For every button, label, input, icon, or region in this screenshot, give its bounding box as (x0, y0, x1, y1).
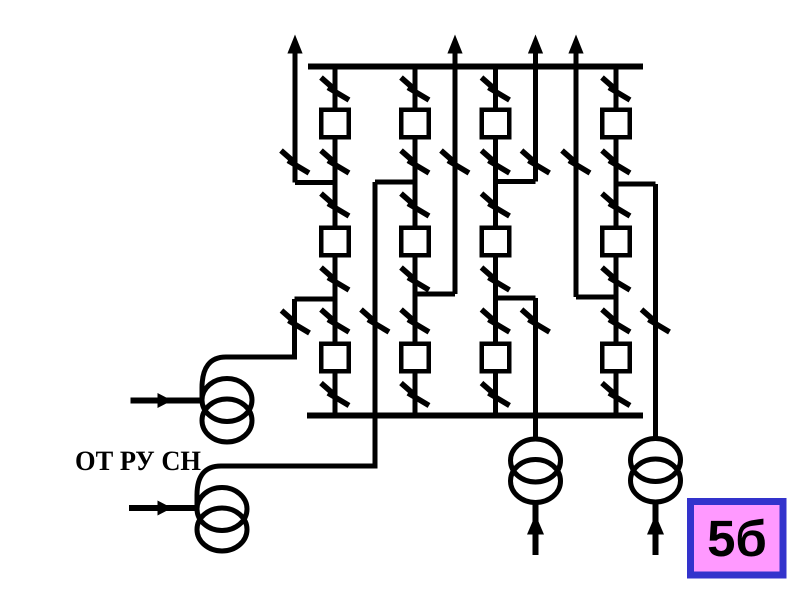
disconnector QS3-6 (482, 383, 510, 406)
svg-text:ОТ РУ СН: ОТ РУ СН (75, 446, 201, 477)
bay3 tap2 wire (496, 296, 536, 301)
T3 supply arrowhead (527, 515, 544, 535)
T1 supply arrowhead (158, 393, 173, 408)
breaker Q3-2 (482, 228, 510, 256)
T2 supply arrowhead (158, 501, 173, 516)
disconnector QS2-3 (401, 194, 429, 217)
breaker Q1-1 (321, 110, 349, 138)
bay2 tap1 wire (375, 180, 415, 185)
disconnector QS4-6 (602, 383, 630, 406)
bay 3 feeder line (493, 67, 498, 416)
disconnector on line A2 (441, 151, 469, 174)
T4 supply arrowhead (647, 515, 664, 535)
outgoing line A2 wire (453, 48, 458, 294)
transformer T4 drop wire (x=655.5) (653, 184, 658, 440)
bay1 tap2 wire (295, 297, 336, 302)
breaker Q1-3 (321, 344, 349, 372)
disconnector QS3-3 (482, 194, 510, 217)
disconnector QS4-3 (602, 194, 630, 217)
transformer T1 elbow wire (x=294.5) (202, 299, 295, 398)
disconnector QS3-5 (482, 310, 510, 333)
disconnector QS4-5 (602, 310, 630, 333)
svg-text:5б: 5б (707, 510, 767, 567)
breaker Q2-2 (401, 228, 429, 256)
breaker Q3-3 (482, 344, 510, 372)
T1 supply wire (131, 398, 204, 404)
disconnector QS2-2 (401, 151, 429, 174)
disconnector QS4-1 (602, 78, 630, 101)
disconnector QS1-3 (321, 194, 349, 217)
arrowhead A1 (287, 35, 302, 54)
T3 supply wire (533, 503, 539, 555)
top busbar (308, 64, 643, 70)
disconnector QS4-4 (602, 268, 630, 291)
bay 4 feeder line (614, 67, 619, 416)
transformer T3 (511, 439, 561, 482)
disconnector QS1-6 (321, 383, 349, 406)
breaker Q4-1 (602, 110, 630, 138)
disconnector QS2-4 (401, 268, 429, 291)
disconnector QS1-2 (321, 151, 349, 174)
disconnector QS1-5 (321, 310, 349, 333)
breaker Q3-1 (482, 110, 510, 138)
breaker Q1-2 (321, 228, 349, 256)
disconnector QS4-2 (602, 151, 630, 174)
disconnector QS3-1 (482, 78, 510, 101)
arrowhead A3 (528, 35, 543, 54)
disconnector QS3-4 (482, 268, 510, 291)
breaker Q2-3 (401, 344, 429, 372)
disconnector on line A4 (562, 151, 590, 174)
disconnector QS3-2 (482, 151, 510, 174)
transformer T4 (631, 439, 681, 482)
scheme badge box 5б (691, 502, 784, 576)
disconnector QS2-5 (401, 310, 429, 333)
transformer T1 (202, 379, 252, 422)
breaker Q4-3 (602, 344, 630, 372)
disconnector on T3 drop (522, 310, 550, 333)
outgoing line A4 wire (574, 48, 579, 297)
bay2 tap2 wire (415, 292, 455, 297)
breaker Q2-1 (401, 110, 429, 138)
T4 supply wire (653, 503, 659, 555)
arrowhead A4 (568, 35, 583, 54)
disconnector QS2-1 (401, 78, 429, 101)
disconnector on T4 drop (642, 310, 670, 333)
disconnector on line A3 (522, 151, 550, 174)
disconnector on T1 elbow (282, 311, 310, 334)
bay1 tap1 wire (295, 180, 335, 185)
outgoing line A3 wire (533, 48, 538, 182)
bay 1 feeder line (333, 67, 338, 416)
arrowhead A2 (447, 35, 462, 54)
disconnector QS1-4 (321, 268, 349, 291)
bay4 tap2 wire (576, 295, 616, 300)
breaker Q4-2 (602, 228, 630, 256)
bay 2 feeder line (413, 67, 418, 416)
outgoing line A1 wire (293, 48, 298, 183)
transformer T2 (197, 488, 247, 531)
transformer T3 drop wire (x=535.5) (533, 298, 538, 440)
disconnector QS1-1 (321, 78, 349, 101)
T2 supply wire (129, 505, 198, 511)
bay4 tap1 wire (616, 182, 656, 187)
disconnector on line A1 (281, 151, 309, 174)
bay3 tap1 wire (496, 179, 536, 184)
bottom busbar (307, 413, 643, 419)
disconnector QS2-6 (401, 383, 429, 406)
transformer T2 drop wire (x=375) (197, 182, 375, 505)
disconnector on T2 drop (361, 310, 389, 333)
